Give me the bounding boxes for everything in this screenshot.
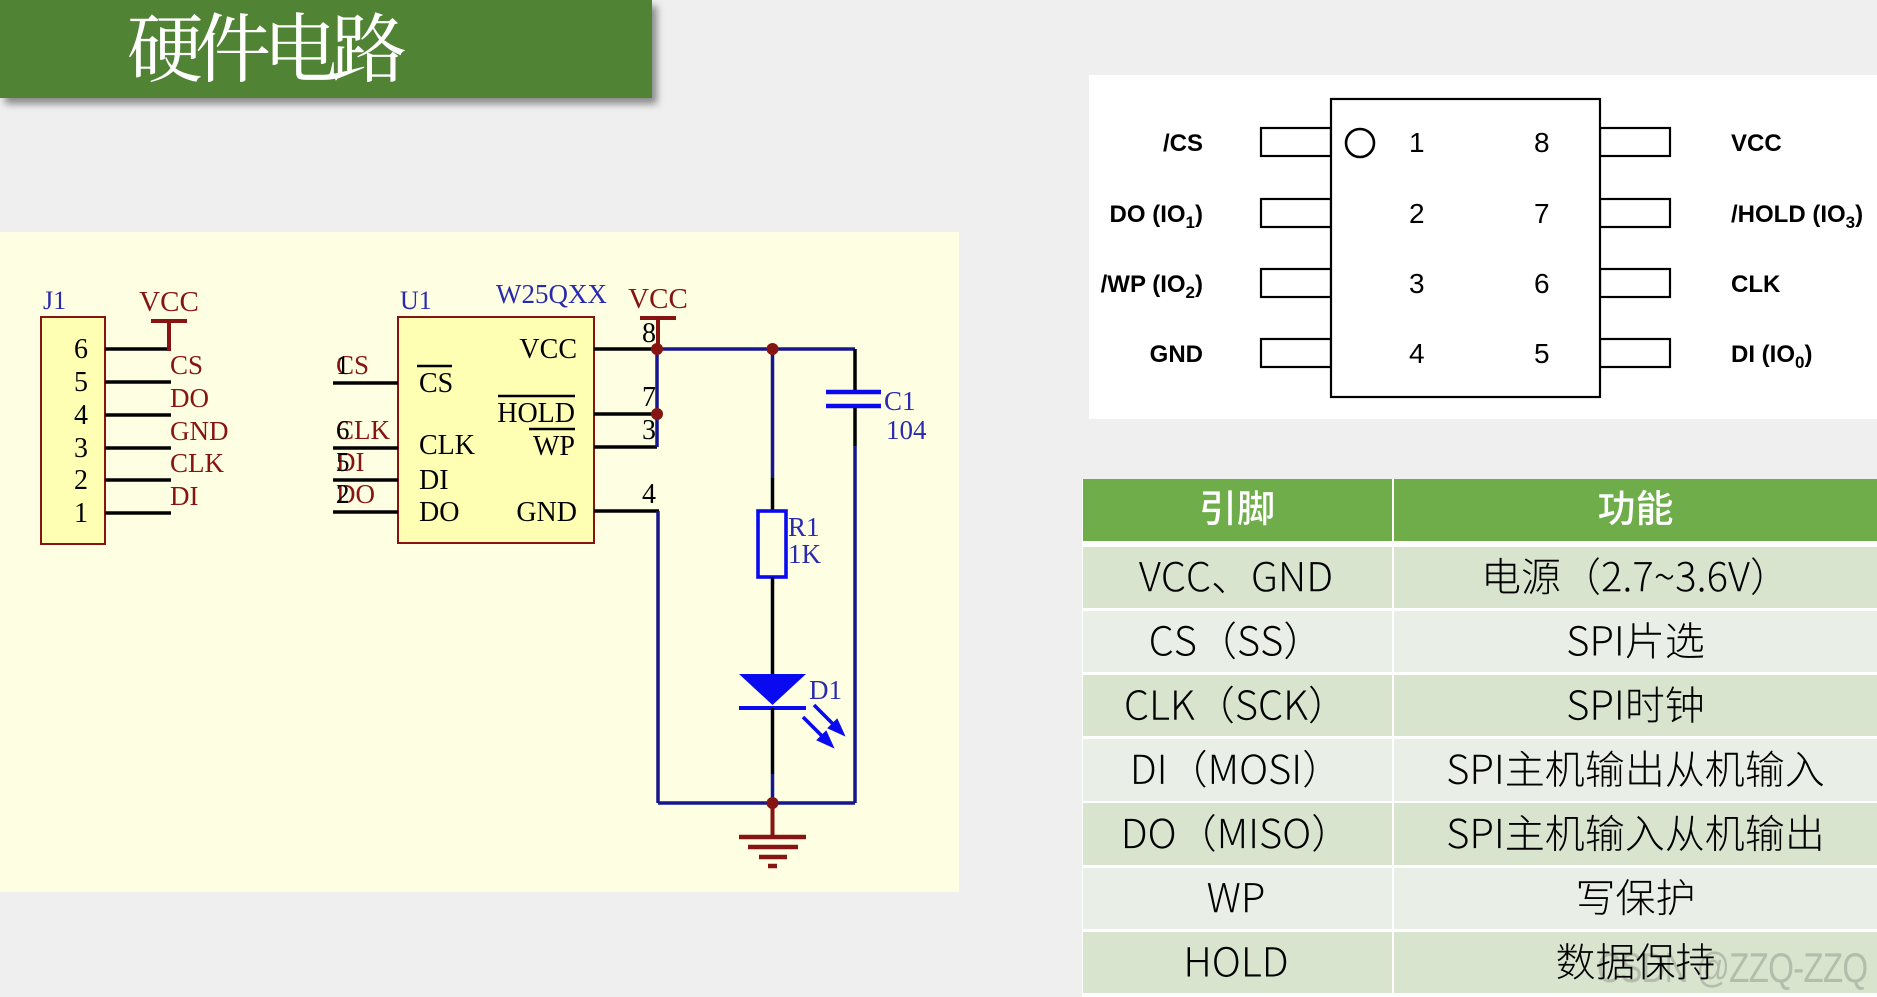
svg-text:8: 8 (1534, 127, 1550, 158)
svg-text:5: 5 (74, 367, 88, 398)
svg-text:HOLD: HOLD (497, 398, 575, 429)
svg-text:CS: CS (419, 368, 453, 399)
svg-text:DO: DO (170, 383, 209, 413)
svg-text:1K: 1K (788, 539, 822, 569)
svg-text:VCC: VCC (139, 286, 199, 318)
svg-text:3: 3 (642, 415, 656, 446)
svg-text:DI (IO0​): DI (IO0​) (1731, 341, 1812, 372)
svg-text:CLK: CLK (419, 430, 475, 461)
svg-text:104: 104 (886, 415, 927, 445)
svg-text:WP: WP (533, 431, 575, 462)
svg-text:J1: J1 (43, 286, 66, 315)
svg-text:1: 1 (336, 350, 350, 380)
svg-text:CLK: CLK (170, 448, 225, 478)
svg-text:C1: C1 (884, 386, 916, 416)
svg-text:1: 1 (74, 498, 88, 529)
svg-text:R1: R1 (788, 512, 820, 542)
svg-text:VCC: VCC (1731, 130, 1782, 157)
svg-text:U1: U1 (400, 286, 432, 315)
svg-text:DO: DO (419, 497, 459, 528)
svg-text:7: 7 (1534, 198, 1550, 229)
svg-text:6: 6 (1534, 268, 1550, 299)
svg-text:2: 2 (1409, 198, 1425, 229)
svg-text:4: 4 (74, 400, 88, 431)
svg-text:GND: GND (516, 497, 577, 528)
svg-text:7: 7 (642, 382, 656, 413)
svg-text:5: 5 (336, 447, 350, 477)
svg-text:5: 5 (1534, 338, 1550, 369)
svg-text:VCC: VCC (519, 334, 577, 365)
svg-text:GND: GND (1150, 341, 1203, 368)
svg-text:/HOLD (IO3​): /HOLD (IO3​) (1731, 201, 1863, 232)
svg-text:6: 6 (74, 334, 88, 365)
svg-text:VCC: VCC (628, 283, 688, 315)
svg-text:CS: CS (170, 350, 203, 380)
svg-text:/WP (IO2​): /WP (IO2​) (1101, 271, 1203, 302)
svg-text:2: 2 (336, 479, 350, 509)
svg-text:6: 6 (336, 415, 350, 445)
svg-text:4: 4 (642, 479, 656, 510)
svg-text:W25QXX: W25QXX (496, 279, 607, 309)
svg-text:DI: DI (419, 465, 449, 496)
svg-text:CLK: CLK (1731, 271, 1781, 298)
svg-text:1: 1 (1409, 127, 1425, 158)
svg-text:D1: D1 (809, 675, 842, 705)
svg-text:/CS: /CS (1163, 130, 1203, 157)
svg-text:DO (IO1​): DO (IO1​) (1110, 201, 1203, 232)
svg-text:4: 4 (1409, 338, 1425, 369)
svg-text:2: 2 (74, 465, 88, 496)
svg-text:3: 3 (74, 433, 88, 464)
svg-text:GND: GND (170, 416, 229, 446)
svg-text:DI: DI (170, 481, 199, 511)
svg-text:3: 3 (1409, 268, 1425, 299)
